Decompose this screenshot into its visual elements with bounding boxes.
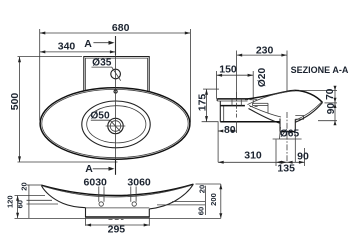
svg-text:680: 680 [112,22,130,34]
extension tip [325,102,338,104]
extension line top of 500 [18,56,83,58]
svg-text:A: A [84,38,92,50]
deck lower line [217,100,247,102]
section tick top [115,36,117,55]
svg-text:80: 80 [224,124,236,136]
flat bottom [220,121,280,123]
faucet hole walls [232,99,241,106]
extension left deck edge [216,71,218,99]
extension 175 bottom [202,121,219,123]
svg-text:SEZIONE A-A: SEZIONE A-A [291,65,349,75]
wing far underside edge [45,186,191,197]
pedestal left edge (front) [85,208,87,218]
svg-text:Ø20: Ø20 [257,68,268,88]
pedestal bottom (front) [86,216,150,218]
svg-text:135: 135 [277,163,295,175]
basin rim inner ellipse [42,89,188,157]
centerline A-A vertical [115,36,117,175]
basin top profile curve [248,90,323,102]
svg-text:230: 230 [256,45,274,57]
label Ø65 with underline leader [273,127,302,140]
chained dim 70/90 right [334,86,337,126]
underside curve outer [295,103,322,123]
floor extension line [15,217,221,219]
deck top line [217,98,247,100]
pedestal left wall (section) [279,119,281,132]
svg-text:200: 200 [209,193,218,206]
dim 175 [205,89,208,122]
wing top edge [41,184,193,195]
right dim line 200 [219,184,222,218]
section arrow top [93,41,114,45]
extension pedestal right lower [294,134,296,162]
hidden drain dashes under pedestal [109,218,124,220]
basin back rim curve [248,91,296,105]
svg-text:175: 175 [196,94,208,112]
dim 230 [237,54,287,57]
svg-text:500: 500 [9,93,21,111]
deck left lip [216,99,218,101]
cut ledge thick [220,105,245,107]
extension apex [299,90,337,92]
extension line bottom of 500 [18,161,118,163]
dimension 340 line [40,50,116,53]
right extension lines of front view [157,184,221,205]
left dim line 20/60 [28,185,30,219]
extension pedestal left lower [275,140,277,167]
pedestal right edge (front) [148,209,150,217]
bowl interior curve lower [249,109,281,124]
drain cross line [106,125,126,127]
svg-text:60: 60 [16,200,25,208]
overflow notch right of pedestal [295,116,303,120]
extension drain axis [286,51,288,92]
bottom chain dim line [218,161,304,164]
svg-text:20: 20 [197,185,206,193]
extension line left of 680 [39,29,41,121]
svg-text:340: 340 [58,41,76,53]
right dim line 20/60 [204,186,206,215]
extension overflow slot [252,71,254,104]
drain outer circle [108,118,123,133]
left wall inner [223,106,225,122]
dimension 680 line [40,32,191,35]
extension chain right [304,148,306,166]
extension 175 top [203,88,219,90]
dim 80 [218,130,237,133]
underside curve inner [295,102,321,120]
bowl opening ellipse [82,101,150,148]
drain inner circle [110,121,121,132]
pedestal rectangle outer (plan) [84,57,149,92]
wing underside right [149,184,193,209]
pedestal rectangle inner (plan) [85,58,147,91]
left dim line 120 [16,196,19,219]
dimension 500 line [18,57,21,162]
svg-text:60: 60 [196,207,205,215]
terminator circle right [132,202,136,206]
faucet hole circle (Ø35) [111,69,121,79]
svg-text:6030: 6030 [84,177,108,189]
bowl interior curve upper [249,106,281,118]
basin outer ellipse [40,88,190,159]
svg-text:Ø65: Ø65 [280,129,300,140]
svg-text:3060: 3060 [127,177,151,189]
section arrow bottom [93,167,115,171]
extension lines left of front view [15,185,59,204]
svg-text:295: 295 [108,224,126,236]
dim 150 [217,74,254,77]
bowl bottom ellipse [87,106,146,143]
svg-text:20: 20 [19,182,28,190]
pedestal right wall (section) [294,119,296,131]
extension 80 left [217,122,219,163]
svg-text:70: 70 [325,88,336,100]
faucet centerline [236,92,238,118]
svg-text:90: 90 [297,150,309,162]
dim 295 [86,217,150,227]
extension line right of 680 [189,29,191,123]
extension bottom right [318,120,337,122]
svg-text:120: 120 [5,195,14,208]
pedestal top edge (front) [86,207,150,209]
label Ø35 with leader [92,58,121,81]
overflow slot lines [253,103,269,113]
section tick bottom [115,160,117,175]
dim verticals 60/30 left pair [99,187,104,202]
label Ø50 with leader [90,111,120,132]
svg-text:310: 310 [244,150,262,162]
svg-text:150: 150 [219,64,237,76]
extension 80 right / faucet axis lower [236,121,238,133]
dim verticals 30/60 right pair [131,187,136,202]
svg-text:A: A [85,163,93,175]
wing underside left [42,186,86,208]
extension faucet axis [236,51,238,99]
terminator circle left [99,202,103,206]
svg-text:90: 90 [326,103,337,115]
hidden dashes right of faucet hole [245,100,259,107]
left wall outer [219,101,221,122]
pedestal bottom (section) [280,131,295,133]
drain centerline (section) [286,112,288,162]
overflow hole small circle [114,90,117,93]
